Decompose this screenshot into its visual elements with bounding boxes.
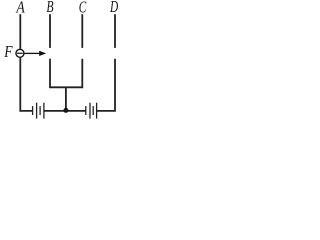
slider contact F dash [17,52,23,54]
battery G2 plate tall 1 [89,103,91,119]
battery G1 plate short 1 [32,106,34,115]
arrow head [39,51,46,56]
svg-text:C: C [79,0,87,16]
junction dot [63,108,68,113]
battery G1 plate short 2 [39,106,41,115]
svg-text:D: D [109,0,118,16]
battery G1 plate tall 1 [36,103,38,119]
arrow shaft [25,52,41,54]
wire bus stub to junction [65,87,67,111]
svg-text:A: A [16,0,26,17]
svg-text:B: B [46,0,54,16]
battery G2 plate short 1 [85,106,87,115]
battery G1 plate tall 2 [43,103,45,119]
wire contact A upper [19,14,21,49]
wire A lower to battery [20,58,32,111]
wire between batteries [44,110,86,112]
wire D lower to battery [97,59,115,111]
wire contact D upper [114,14,116,48]
svg-text:F: F [3,42,13,61]
battery G2 plate short 2 [92,106,94,115]
slider contact F circle [16,49,24,57]
battery G2 plate tall 2 [96,103,98,119]
wire contact B upper [49,14,51,48]
wire contact C upper [81,14,83,48]
wire B-C lower bus [50,59,82,88]
